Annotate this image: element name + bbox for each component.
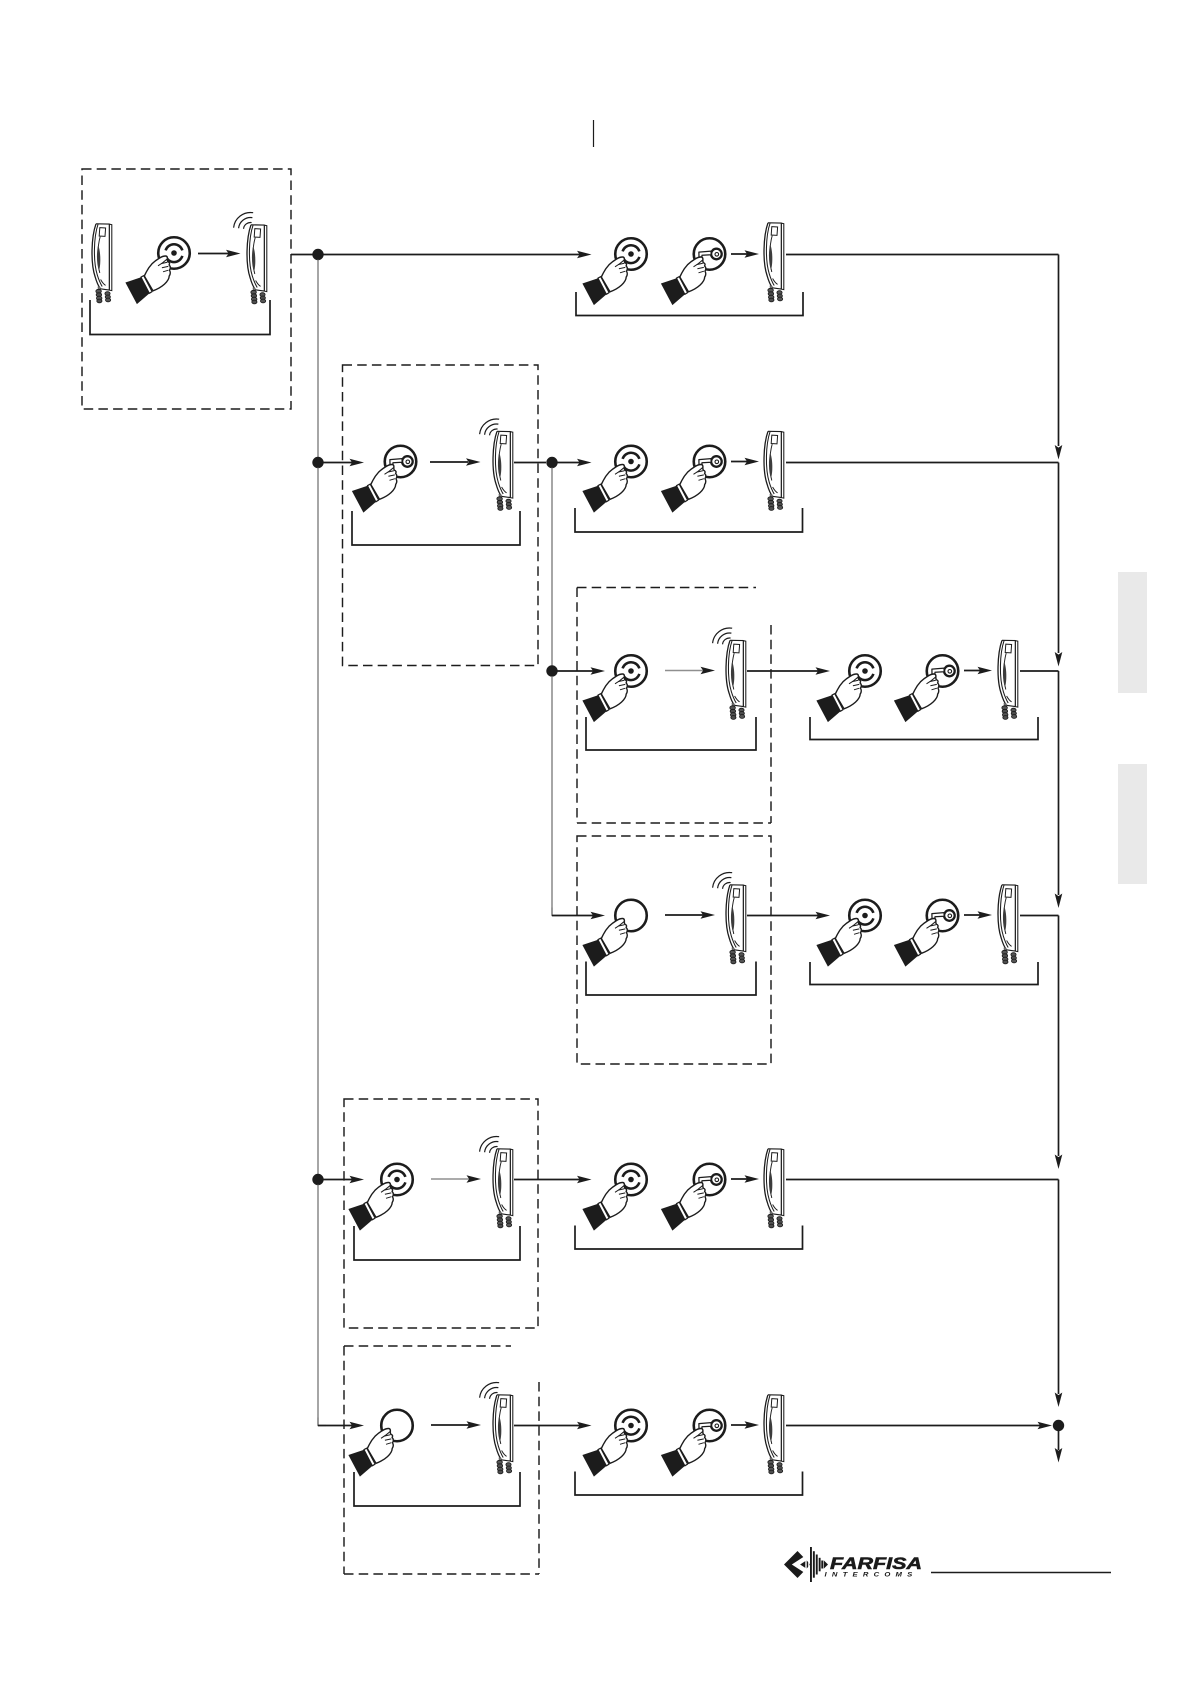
wire: box B1 output to junction bbox=[291, 254, 318, 256]
ringing handset in B5 bbox=[480, 1137, 513, 1228]
arrow B5 to group 5 bbox=[514, 1179, 580, 1181]
right bus segment 4 bbox=[1058, 916, 1060, 1157]
junction dot row1 bbox=[312, 249, 323, 260]
logo baseline rule bbox=[931, 1572, 1111, 1574]
right bus segment 3 bbox=[1058, 671, 1060, 895]
bracket under group1 bbox=[576, 292, 803, 316]
bracket under B1 icons bbox=[90, 300, 270, 335]
arrow into group 2 bbox=[552, 462, 580, 464]
handset group1 bbox=[764, 223, 784, 302]
dashed box B1 (master intercom call) bbox=[82, 169, 291, 409]
right bus segment 2 bbox=[1058, 463, 1060, 654]
arrow B1 internal bbox=[198, 253, 230, 255]
wire B2 output bbox=[514, 462, 546, 464]
junction dot row5 bbox=[312, 1174, 323, 1185]
arrow down right bus 2 bbox=[1055, 652, 1063, 667]
second bus segment b bbox=[551, 676, 553, 916]
bracket under group4 bbox=[810, 962, 1038, 985]
bracket under B3 icons bbox=[586, 717, 756, 750]
bracket under group3 bbox=[810, 717, 1038, 740]
arrow B6 internal bbox=[431, 1424, 469, 1426]
arrow group1 internal bbox=[731, 253, 749, 255]
call button group6 bbox=[582, 1410, 646, 1477]
handset group6 bbox=[764, 1395, 784, 1474]
ringing handset in B2 bbox=[480, 419, 513, 510]
arrow B5 internal (gray) bbox=[431, 1178, 469, 1180]
arrow B4 internal bbox=[665, 914, 703, 916]
arrow B3 to group 3 bbox=[747, 670, 818, 672]
left bus segment 2 bbox=[317, 468, 319, 1175]
call button pressed by hand in B5 bbox=[348, 1164, 412, 1231]
key button group1 bbox=[661, 238, 725, 305]
ringing handset in B1 bbox=[234, 213, 267, 304]
FARFISA intercoms logo bbox=[784, 1547, 922, 1582]
bracket under group6 bbox=[575, 1472, 803, 1496]
call button pressed by hand in B3 bbox=[582, 655, 646, 722]
arrow group6 into bottom junction bbox=[786, 1425, 1040, 1427]
arrow group3 internal bbox=[964, 670, 982, 672]
bracket under group5 bbox=[575, 1226, 803, 1250]
dashed box B5 (call button intercom) bbox=[344, 1099, 538, 1328]
arrow group4 internal bbox=[964, 914, 982, 916]
handset group2 bbox=[764, 431, 784, 510]
key button group4 bbox=[894, 900, 958, 967]
arrow into box B2 bbox=[318, 462, 352, 464]
bracket under B4 icons bbox=[586, 962, 756, 996]
handset group5 bbox=[764, 1149, 784, 1228]
wire+arrow into group 1 bbox=[318, 254, 580, 256]
arrow into box B4 bbox=[552, 915, 593, 917]
bracket under B6 icons bbox=[354, 1472, 520, 1506]
right bus segment 1 bbox=[1058, 255, 1060, 447]
key button group2 bbox=[661, 446, 725, 513]
gray index tab 2 bbox=[1118, 764, 1147, 884]
left bus segment 1 bbox=[317, 260, 319, 458]
call button group2 bbox=[582, 446, 646, 513]
wire group1 to right bus bbox=[786, 254, 1059, 256]
crop tick mark bbox=[593, 120, 595, 147]
arrow into box B3 bbox=[552, 670, 593, 672]
call button group1 bbox=[582, 238, 646, 305]
arrow down right bus 4 bbox=[1055, 1155, 1063, 1170]
svg-text:FARFISA: FARFISA bbox=[830, 1555, 922, 1573]
arrow down right bus 3 bbox=[1055, 894, 1063, 909]
ringing handset in B3 bbox=[713, 628, 746, 719]
call button group3 bbox=[816, 655, 880, 722]
call button group5 bbox=[582, 1164, 646, 1231]
bracket under B2 icons bbox=[352, 511, 520, 545]
left bus corner row6 bbox=[318, 1418, 326, 1426]
bracket under B5 icons bbox=[354, 1226, 520, 1260]
handset group4 bbox=[998, 885, 1018, 964]
arrow down right bus 1 bbox=[1055, 445, 1063, 460]
dashed box B3 (call button intercom) bbox=[577, 587, 756, 589]
call button group4 bbox=[816, 900, 880, 967]
second bus segment a bbox=[551, 468, 553, 667]
arrow down below bottom junction bbox=[1058, 1431, 1060, 1451]
handset group3 bbox=[998, 640, 1018, 719]
wire group5 to right bus bbox=[786, 1179, 1059, 1181]
arrow B4 to group 4 bbox=[747, 915, 818, 917]
door button pressed by hand in B6 bbox=[348, 1410, 412, 1477]
key button turned by hand in B2 bbox=[352, 446, 416, 513]
dashed box B4 (door button intercom) bbox=[577, 836, 771, 1064]
ringing handset in B6 bbox=[480, 1383, 513, 1474]
arrow group6 internal bbox=[731, 1424, 749, 1426]
key button group6 bbox=[661, 1410, 725, 1477]
junction dot row2 mid bbox=[546, 457, 557, 468]
bracket under group2 bbox=[575, 508, 803, 532]
svg-text:INTERCOMS: INTERCOMS bbox=[825, 1572, 918, 1579]
wire group3 to right bus bbox=[1020, 670, 1059, 672]
arrow group2 internal bbox=[731, 461, 749, 463]
arrow group5 internal bbox=[731, 1178, 749, 1180]
gray index tab 1 bbox=[1118, 572, 1147, 693]
arrow into box B5 bbox=[318, 1179, 352, 1181]
dashed box B2 (key intercom) bbox=[343, 365, 539, 666]
call button pressed by hand in B1 bbox=[125, 237, 189, 304]
junction dot row3 bbox=[546, 665, 557, 676]
key button group5 bbox=[661, 1164, 725, 1231]
arrow into box B6 bbox=[318, 1425, 352, 1427]
wire group2 to right bus bbox=[786, 462, 1059, 464]
ringing handset in B4 bbox=[713, 873, 746, 964]
arrow down right bus 5 bbox=[1055, 1393, 1063, 1408]
door button pressed by hand in B4 bbox=[582, 900, 646, 967]
arrow B2 internal bbox=[430, 461, 468, 463]
key button group3 bbox=[894, 655, 958, 722]
right bus segment 5 bbox=[1058, 1180, 1060, 1395]
arrow B6 to group 6 bbox=[514, 1425, 580, 1427]
left bus segment 3 bbox=[317, 1185, 319, 1426]
handset (idle) in B1 bbox=[92, 224, 112, 303]
arrow B3 internal (gray) bbox=[665, 670, 703, 672]
bottom junction dot bbox=[1053, 1420, 1064, 1431]
junction dot row2 left bbox=[312, 457, 323, 468]
second bus corner row4 bbox=[552, 908, 560, 916]
wire group4 to right bus bbox=[1020, 915, 1059, 917]
dashed box B6 (door button intercom) bbox=[344, 1345, 511, 1347]
